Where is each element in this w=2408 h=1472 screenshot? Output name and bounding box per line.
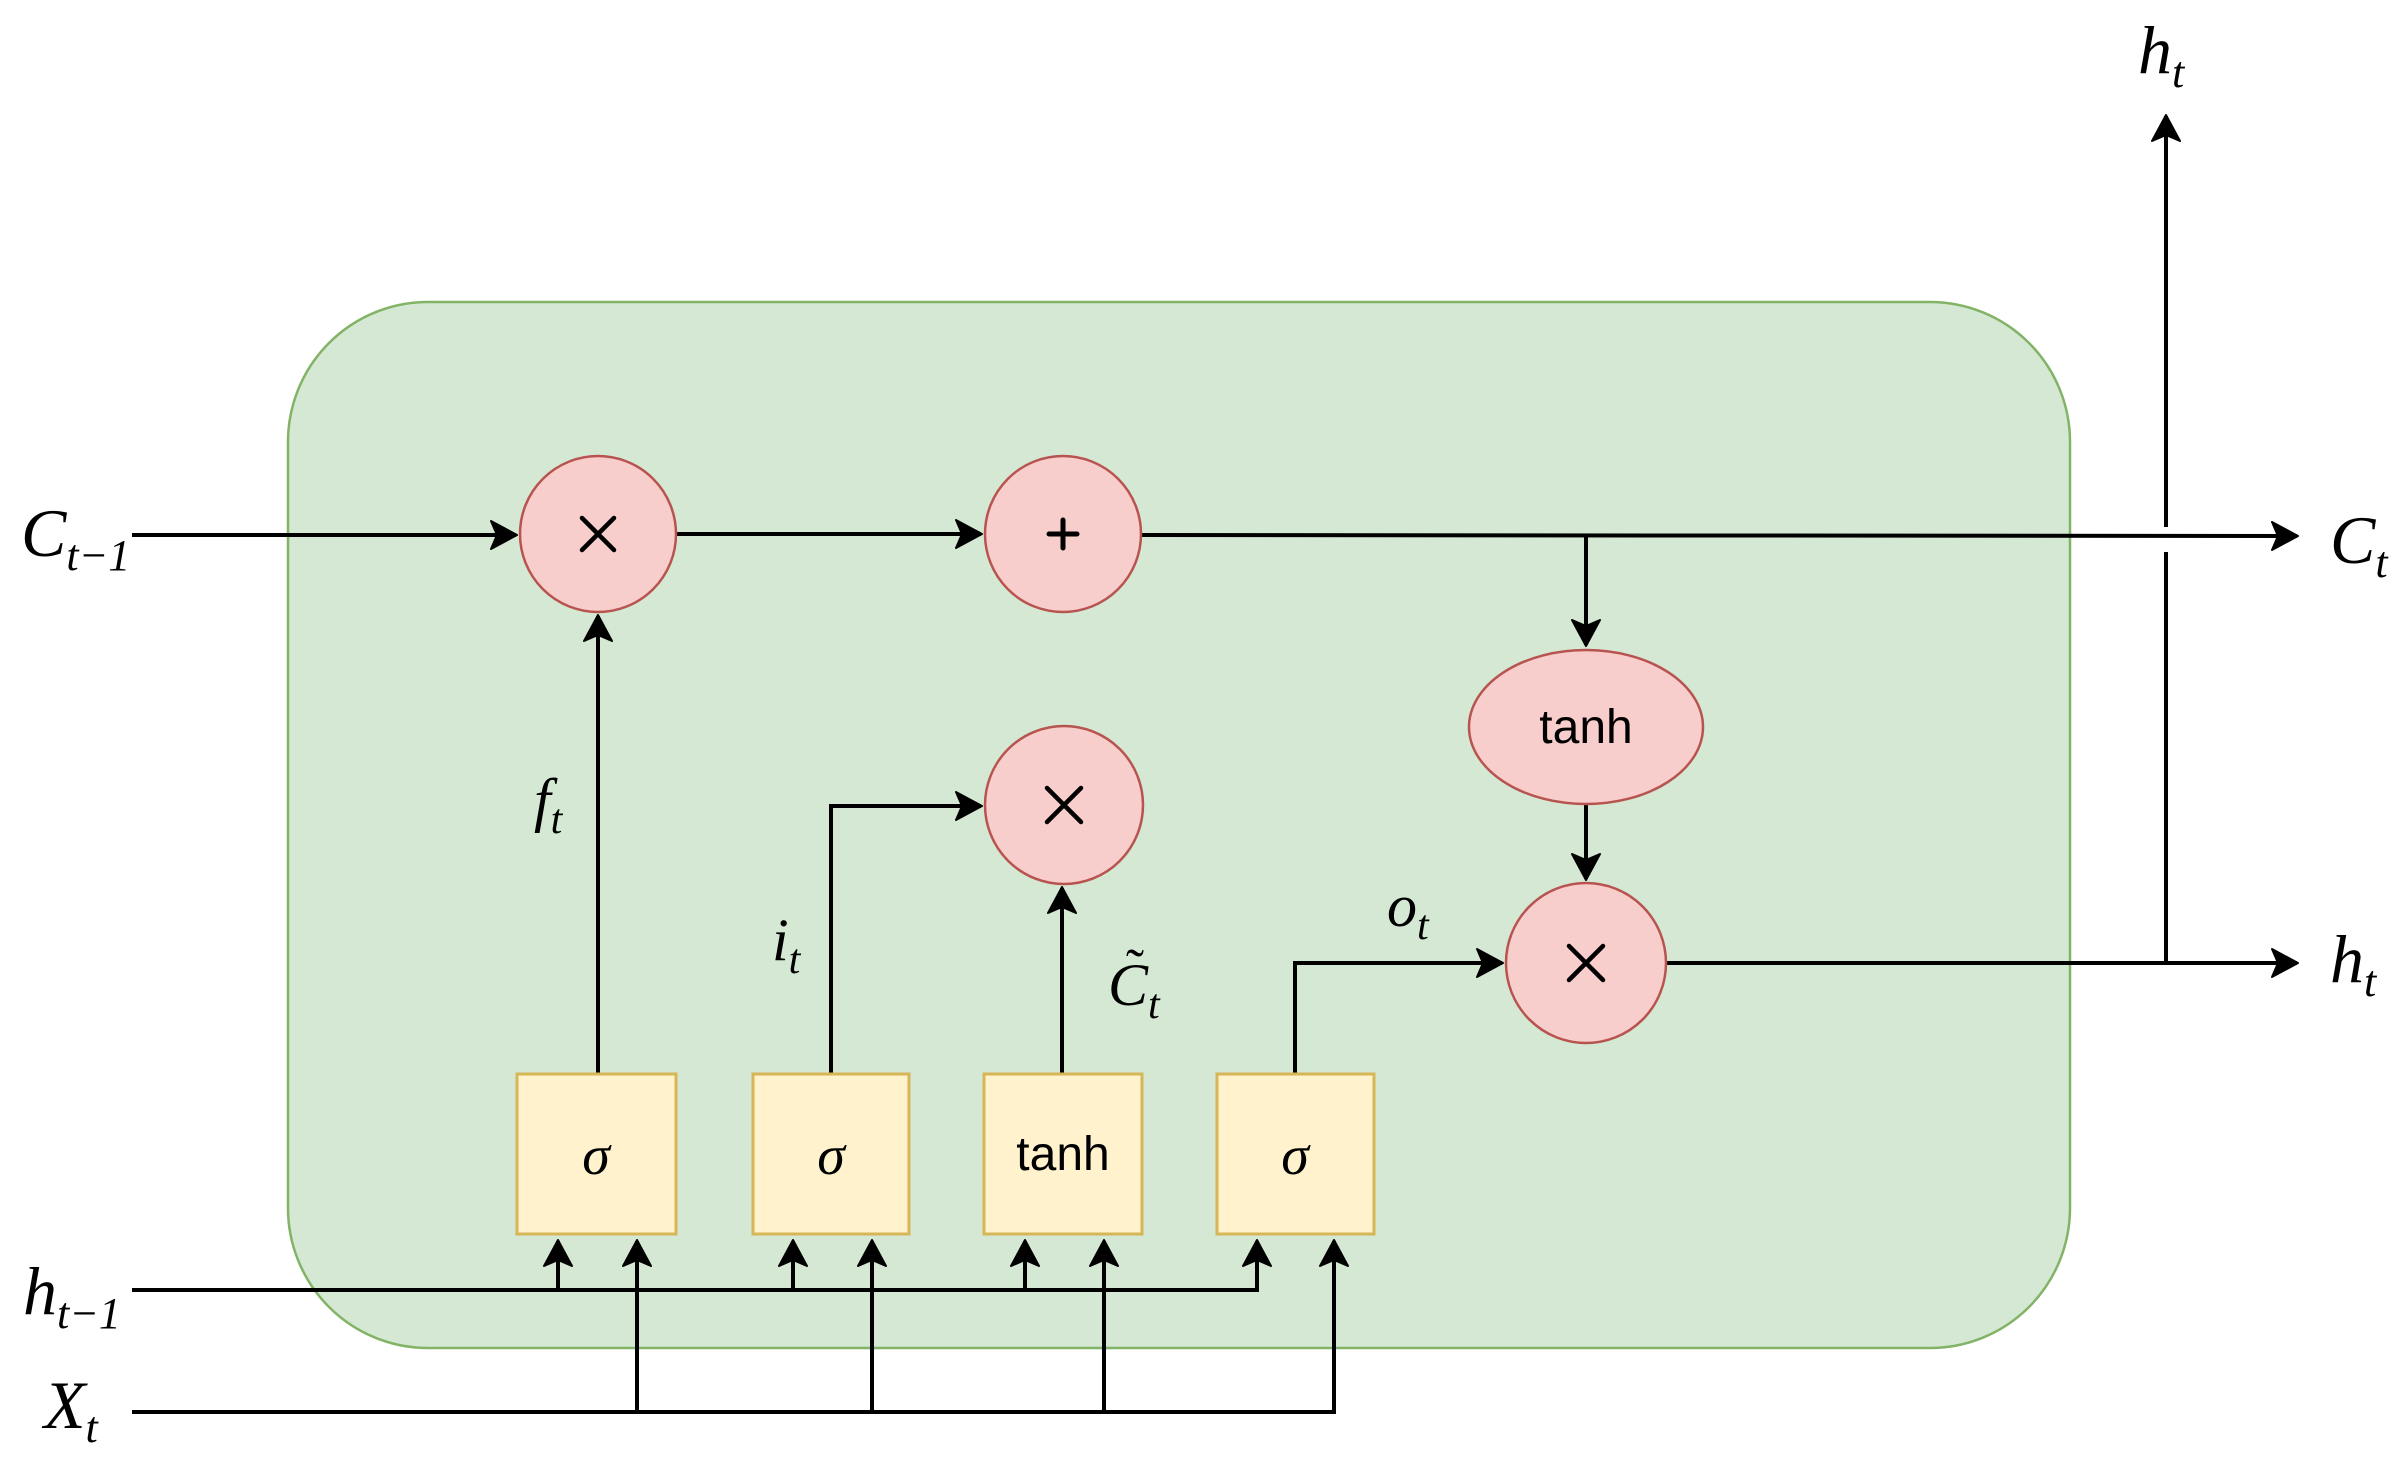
multiply node M1 (forget gate product) <box>520 456 676 612</box>
wire branch C line down to tanh ellipse T1 <box>1584 536 1588 645</box>
wire h(t-1) stub into G2 left <box>791 1241 795 1290</box>
label C~(t) <box>1108 938 1161 1028</box>
svg-text:˜: ˜ <box>1126 938 1144 998</box>
tanh gate G3 (candidate) <box>984 1074 1142 1234</box>
wire A1 to C(t) output <box>1141 535 2297 536</box>
wire f(t): sigma gate G1 up to M1 <box>596 616 600 1073</box>
wire X(t) stub into G1 right <box>635 1241 639 1412</box>
wire X(t) input bus with final turn up into G4 right <box>132 1241 1334 1412</box>
wire i(t): sigma gate G2 up then right to M2 <box>831 806 981 1073</box>
svg-text:σ: σ <box>817 1125 847 1187</box>
wire T1 down to multiply node M3 <box>1584 805 1588 879</box>
plus node A1 (cell state sum) <box>985 456 1141 612</box>
wire C(t-1) input to multiply node M1 <box>132 533 516 537</box>
wire C~(t): tanh gate G3 up to M2 <box>1060 888 1064 1073</box>
sigma gate G4 (output gate) <box>1217 1074 1374 1234</box>
multiply node M2 (input gate product) <box>985 726 1143 884</box>
multiply node M3 (output gate product) <box>1506 883 1666 1043</box>
wire h(t-1) stub into G3 left <box>1023 1241 1027 1290</box>
svg-text:σ: σ <box>582 1125 612 1187</box>
wire h(t-1) input bus with final turn up into G4 left <box>132 1241 1257 1290</box>
LSTM cell body (rounded green container) <box>288 302 2070 1348</box>
wire X(t) stub into G2 right <box>870 1241 874 1412</box>
wire o(t): sigma gate G4 up then right to M3 <box>1295 963 1502 1073</box>
svg-text:σ: σ <box>1281 1125 1311 1187</box>
wire X(t) stub into G3 right <box>1102 1241 1106 1412</box>
wire h(t-1) stub into G1 left <box>556 1241 560 1290</box>
wire M3 to h(t) right output <box>1666 961 2297 965</box>
svg-text:tanh: tanh <box>1016 1128 1109 1181</box>
wire h(t) vertical up (lower segment, gap at C line crossing) <box>2164 552 2168 963</box>
wire M1 to plus node A1 <box>676 532 981 536</box>
wire h(t) vertical up (upper segment with arrowhead) <box>2164 116 2168 527</box>
sigma gate G1 (forget gate) <box>517 1074 676 1234</box>
svg-text:tanh: tanh <box>1539 701 1632 754</box>
tanh ellipse T1 (cell state activation) <box>1469 650 1703 804</box>
sigma gate G2 (input gate) <box>753 1074 909 1234</box>
